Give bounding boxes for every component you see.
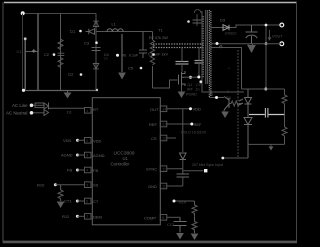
capacitor C6 bbox=[139, 32, 147, 59]
wire feedback rail bbox=[242, 88, 285, 90]
node pin L5 dot bbox=[54, 183, 57, 186]
pin box L3 bbox=[85, 152, 92, 158]
node primary bottom dot bbox=[199, 80, 202, 83]
wire output right column bbox=[265, 25, 267, 44]
svg-text:C3: C3 bbox=[84, 41, 90, 46]
resistor R4 fb bbox=[229, 101, 241, 106]
node snubber dot bbox=[152, 53, 155, 56]
svg-text:GND: GND bbox=[148, 184, 157, 189]
terminal sync pad bbox=[204, 169, 207, 172]
node pin L4 dot bbox=[76, 169, 79, 172]
resistor R11 bbox=[58, 185, 63, 201]
svg-text:14: 14 bbox=[162, 107, 167, 112]
pin box L7 bbox=[85, 214, 92, 220]
optocoupler U2 transistor bbox=[224, 97, 229, 111]
svg-text:CT1: CT1 bbox=[64, 199, 72, 204]
transformer T1 primary winding bbox=[202, 16, 204, 78]
pin box R2 bbox=[160, 121, 167, 127]
svg-text:12: 12 bbox=[162, 136, 167, 141]
svg-text:D3: D3 bbox=[220, 18, 226, 23]
wire pin L7 bbox=[77, 215, 84, 217]
node mid rail left bbox=[22, 89, 25, 92]
zener D2 bbox=[93, 64, 98, 69]
svg-text:D2: D2 bbox=[68, 72, 74, 77]
zener D1 bbox=[93, 21, 98, 26]
node pin L6 dot bbox=[76, 200, 79, 203]
wire feedback drop bbox=[265, 44, 267, 89]
wire drain lower bbox=[181, 64, 183, 72]
wire C5 branch bbox=[121, 34, 123, 72]
fuse F1 bbox=[35, 103, 44, 108]
node pin L7 dot bbox=[76, 215, 79, 218]
svg-text:IRF: IRF bbox=[187, 88, 194, 92]
wire sync pad bbox=[183, 170, 204, 172]
wire pin L2 bbox=[78, 139, 85, 141]
svg-text:C9: C9 bbox=[196, 83, 201, 87]
node mid tap dot bbox=[216, 42, 219, 45]
svg-text:PGND: PGND bbox=[186, 93, 197, 97]
wire CS net bbox=[176, 200, 195, 202]
resistor R1b bbox=[58, 58, 63, 68]
wire source link bbox=[184, 76, 199, 78]
border frame bottom bbox=[3, 241, 297, 244]
node Q1 source dot bbox=[189, 76, 192, 79]
inductor L1 bbox=[107, 29, 123, 32]
wire fb right mid bbox=[284, 104, 286, 115]
svg-text:1N5822: 1N5822 bbox=[225, 32, 237, 36]
node C4 label dot bbox=[116, 54, 119, 57]
svg-text:U1: U1 bbox=[123, 156, 129, 161]
node D2 label dot bbox=[80, 73, 83, 76]
isolation barrier dashed bbox=[237, 50, 239, 158]
ground arrow C5 bbox=[119, 73, 125, 79]
wire second column bbox=[37, 14, 39, 91]
optocoupler U2 LED bbox=[239, 89, 252, 115]
wire pin R5 bbox=[167, 185, 183, 187]
svg-text:RT: RT bbox=[93, 107, 99, 112]
svg-text:FB: FB bbox=[67, 168, 72, 173]
wire top input rail bbox=[23, 13, 97, 15]
svg-text:C1: C1 bbox=[17, 49, 23, 54]
wire pin R4 bbox=[167, 168, 183, 170]
pin box L4 bbox=[85, 167, 92, 173]
svg-text:AC Line: AC Line bbox=[12, 103, 28, 108]
node pin R1 dot bbox=[189, 107, 192, 110]
wire aux tap bbox=[209, 97, 224, 99]
transistor Q1 bbox=[179, 71, 186, 86]
diode D3 bbox=[223, 25, 229, 31]
border frame top bbox=[4, 2, 297, 4]
node C10 label dot bbox=[187, 20, 190, 23]
node pin R2 dot bbox=[190, 123, 193, 126]
node pin L2 dot bbox=[76, 139, 79, 142]
wire fb right upper bbox=[284, 89, 286, 95]
node D1 label dot bbox=[79, 30, 82, 33]
wire primary top bbox=[194, 10, 201, 26]
svg-text:1n: 1n bbox=[196, 88, 200, 92]
wire TL431 bottom rail bbox=[223, 157, 249, 159]
wire pin R2 bbox=[167, 123, 192, 125]
pin box R1 bbox=[160, 106, 167, 112]
svg-text:AGND: AGND bbox=[61, 153, 73, 158]
svg-text:C2: C2 bbox=[44, 53, 49, 57]
wire pin L3 bbox=[78, 154, 85, 156]
diode D6 horizontal bbox=[86, 29, 95, 35]
capacitor C9 clamp bbox=[195, 61, 204, 64]
ground arrow opto bbox=[222, 112, 228, 117]
wire bus below C12 bbox=[182, 177, 184, 186]
wire opto emitter bbox=[223, 110, 225, 112]
pin box L5 bbox=[85, 182, 92, 188]
svg-text:R2 47k 2W: R2 47k 2W bbox=[149, 36, 168, 40]
svg-text:COMP: COMP bbox=[144, 215, 156, 220]
node clamp dot bbox=[197, 76, 200, 79]
node C1 top blob bbox=[24, 37, 27, 40]
wire right bus lower bbox=[182, 160, 184, 174]
pin box R5 bbox=[160, 183, 167, 189]
svg-text:Q1: Q1 bbox=[188, 83, 193, 87]
wire secondary mid tap bbox=[211, 43, 282, 45]
terminal VOUT minus bbox=[280, 42, 284, 46]
wire drain stub bbox=[181, 48, 183, 62]
pin box R6 bbox=[160, 215, 167, 221]
pin box R3 bbox=[160, 135, 167, 141]
svg-text:D1: D1 bbox=[67, 111, 72, 115]
svg-text:FB: FB bbox=[93, 168, 98, 173]
wire startup column bbox=[95, 14, 97, 91]
wire opto collector bbox=[223, 96, 225, 98]
capacitor C2a bbox=[58, 53, 65, 55]
svg-text:C7 1nF 1kV: C7 1nF 1kV bbox=[148, 53, 169, 57]
terminal VOUT plus bbox=[280, 23, 284, 27]
wire pin L4 bbox=[78, 169, 85, 171]
svg-text:DEM: DEM bbox=[93, 214, 102, 219]
capacitor C12 bbox=[177, 174, 190, 177]
svg-text:+: + bbox=[228, 67, 230, 71]
pin box L1 bbox=[85, 108, 92, 114]
node output top junction bbox=[265, 24, 268, 27]
wire pin L5 bbox=[55, 184, 84, 186]
svg-text:VOUT: VOUT bbox=[272, 35, 283, 39]
pin box L6 bbox=[85, 198, 92, 204]
node CS net dot bbox=[173, 200, 176, 203]
pin box L2 bbox=[85, 138, 92, 144]
wire output return hook bbox=[248, 44, 253, 46]
load arrow IOUT bbox=[268, 30, 271, 40]
wire pin L6 bbox=[77, 200, 84, 202]
wire secondary top bbox=[211, 25, 282, 28]
wire clamp lower bbox=[198, 63, 200, 77]
resistor R2 snubber top bbox=[153, 43, 203, 45]
svg-text:D1: D1 bbox=[70, 29, 76, 34]
wire bridge to pin1 bbox=[52, 107, 85, 109]
node input rail left bbox=[21, 11, 25, 15]
node C5 dot bbox=[140, 67, 143, 70]
pin box R4 bbox=[160, 166, 167, 172]
capacitor C3 bbox=[92, 48, 101, 51]
svg-text:AGND: AGND bbox=[93, 153, 105, 158]
svg-text:R10: R10 bbox=[37, 182, 45, 187]
svg-text:R4: R4 bbox=[226, 96, 231, 100]
svg-text:207 kHz Sync Input: 207 kHz Sync Input bbox=[192, 163, 223, 167]
svg-text:T1: T1 bbox=[158, 28, 163, 33]
wire gate path bbox=[153, 80, 178, 88]
node aux dot bbox=[215, 96, 218, 99]
svg-text:CS: CS bbox=[151, 136, 157, 141]
wire mid rail bbox=[23, 90, 98, 92]
wire fb divider lower bbox=[248, 115, 287, 145]
ground mark divider bbox=[269, 147, 274, 151]
svg-text:C5: C5 bbox=[128, 66, 134, 71]
svg-text:13: 13 bbox=[162, 122, 167, 127]
ground arrow R11 bbox=[58, 202, 64, 207]
svg-text:SS: SS bbox=[93, 183, 99, 188]
wire pin R1 bbox=[167, 108, 191, 110]
ground arrow vdd bbox=[0, 0, 1, 1]
wire bias winding bottom bbox=[202, 81, 244, 92]
wire left input column bbox=[22, 14, 24, 91]
ground arrow bias bbox=[179, 92, 185, 97]
terminal AC line bbox=[30, 104, 34, 108]
svg-text:10: 10 bbox=[162, 184, 167, 189]
wire VDD caps bbox=[183, 97, 185, 129]
diode D4 bbox=[180, 153, 187, 160]
node C2 label dot bbox=[53, 53, 56, 56]
svg-text:REF: REF bbox=[149, 122, 158, 127]
svg-text:VDD: VDD bbox=[93, 138, 102, 143]
border frame right bbox=[296, 2, 298, 243]
terminal AC neutral bbox=[30, 111, 34, 115]
resistor R3 bbox=[282, 95, 287, 103]
resistor R1 bbox=[58, 39, 63, 49]
svg-text:UVLO 16.5/10V: UVLO 16.5/10V bbox=[181, 131, 207, 135]
wire bias line bbox=[96, 31, 153, 33]
ground arrow C13 bbox=[177, 234, 183, 239]
node feedback dot bbox=[264, 88, 267, 91]
node C3 dot bbox=[95, 41, 98, 44]
svg-text:OUT: OUT bbox=[150, 107, 159, 112]
capacitor C7 snubber bottom bbox=[153, 47, 203, 49]
capacitor C10 bbox=[193, 20, 202, 23]
TL431 U3 bbox=[244, 115, 252, 159]
capacitor C11 output bbox=[246, 25, 258, 44]
wire divider stub bbox=[270, 144, 272, 146]
svg-text:L1: L1 bbox=[112, 23, 116, 27]
svg-text:T2: T2 bbox=[209, 93, 213, 97]
capacitor C13 bbox=[174, 217, 187, 232]
node pin L3 dot bbox=[76, 154, 79, 157]
wire AC neutral bbox=[34, 112, 45, 114]
svg-text:1n: 1n bbox=[104, 57, 108, 61]
capacitor C8 drain bbox=[176, 62, 189, 65]
svg-text:R12: R12 bbox=[62, 214, 70, 219]
resistor R15 bbox=[192, 201, 197, 216]
node output return junction bbox=[265, 42, 268, 45]
node mid rail end dot bbox=[96, 89, 98, 91]
svg-text:SYNC: SYNC bbox=[146, 167, 157, 172]
capacitor C14 series bbox=[265, 108, 268, 118]
svg-text:AC Neutral: AC Neutral bbox=[6, 111, 27, 116]
wire pin R6 bbox=[167, 216, 180, 218]
polarity dot secondary bbox=[220, 46, 222, 48]
wire secondary return bbox=[211, 48, 242, 90]
ground chassis arrow bbox=[65, 91, 71, 98]
transformer T1 core bbox=[206, 10, 208, 84]
transformer T1 secondary winding bbox=[209, 10, 211, 97]
svg-text:VDD: VDD bbox=[63, 138, 72, 143]
svg-text:CT: CT bbox=[93, 199, 99, 204]
wire fb bright rail bbox=[249, 114, 285, 116]
wire AC line bbox=[34, 104, 45, 106]
svg-text:C13: C13 bbox=[167, 223, 174, 227]
capacitor C1 electrolytic bbox=[24, 39, 26, 90]
wire clamp column bbox=[198, 48, 200, 61]
svg-text:Controller: Controller bbox=[111, 161, 131, 166]
wire R15 lower bbox=[192, 216, 197, 233]
node TL431 bottom dot bbox=[221, 157, 224, 160]
bridge rectifier BR1 bbox=[44, 103, 52, 116]
svg-text:0.1uF: 0.1uF bbox=[129, 54, 139, 58]
wire primary left bbox=[201, 11, 203, 81]
ground arrow output bbox=[248, 46, 255, 53]
wire right bus bbox=[182, 109, 184, 152]
wire bias stub bbox=[181, 86, 183, 92]
svg-text:VDD: VDD bbox=[193, 107, 202, 112]
wire third column bbox=[60, 14, 62, 91]
ground arrow R15 bbox=[192, 234, 198, 239]
border frame left bbox=[2, 2, 4, 243]
svg-text:REF: REF bbox=[194, 122, 203, 127]
IC U1 outline bbox=[92, 98, 160, 225]
wire pin R3 bbox=[167, 137, 176, 139]
wire snubber left column bbox=[152, 32, 154, 41]
